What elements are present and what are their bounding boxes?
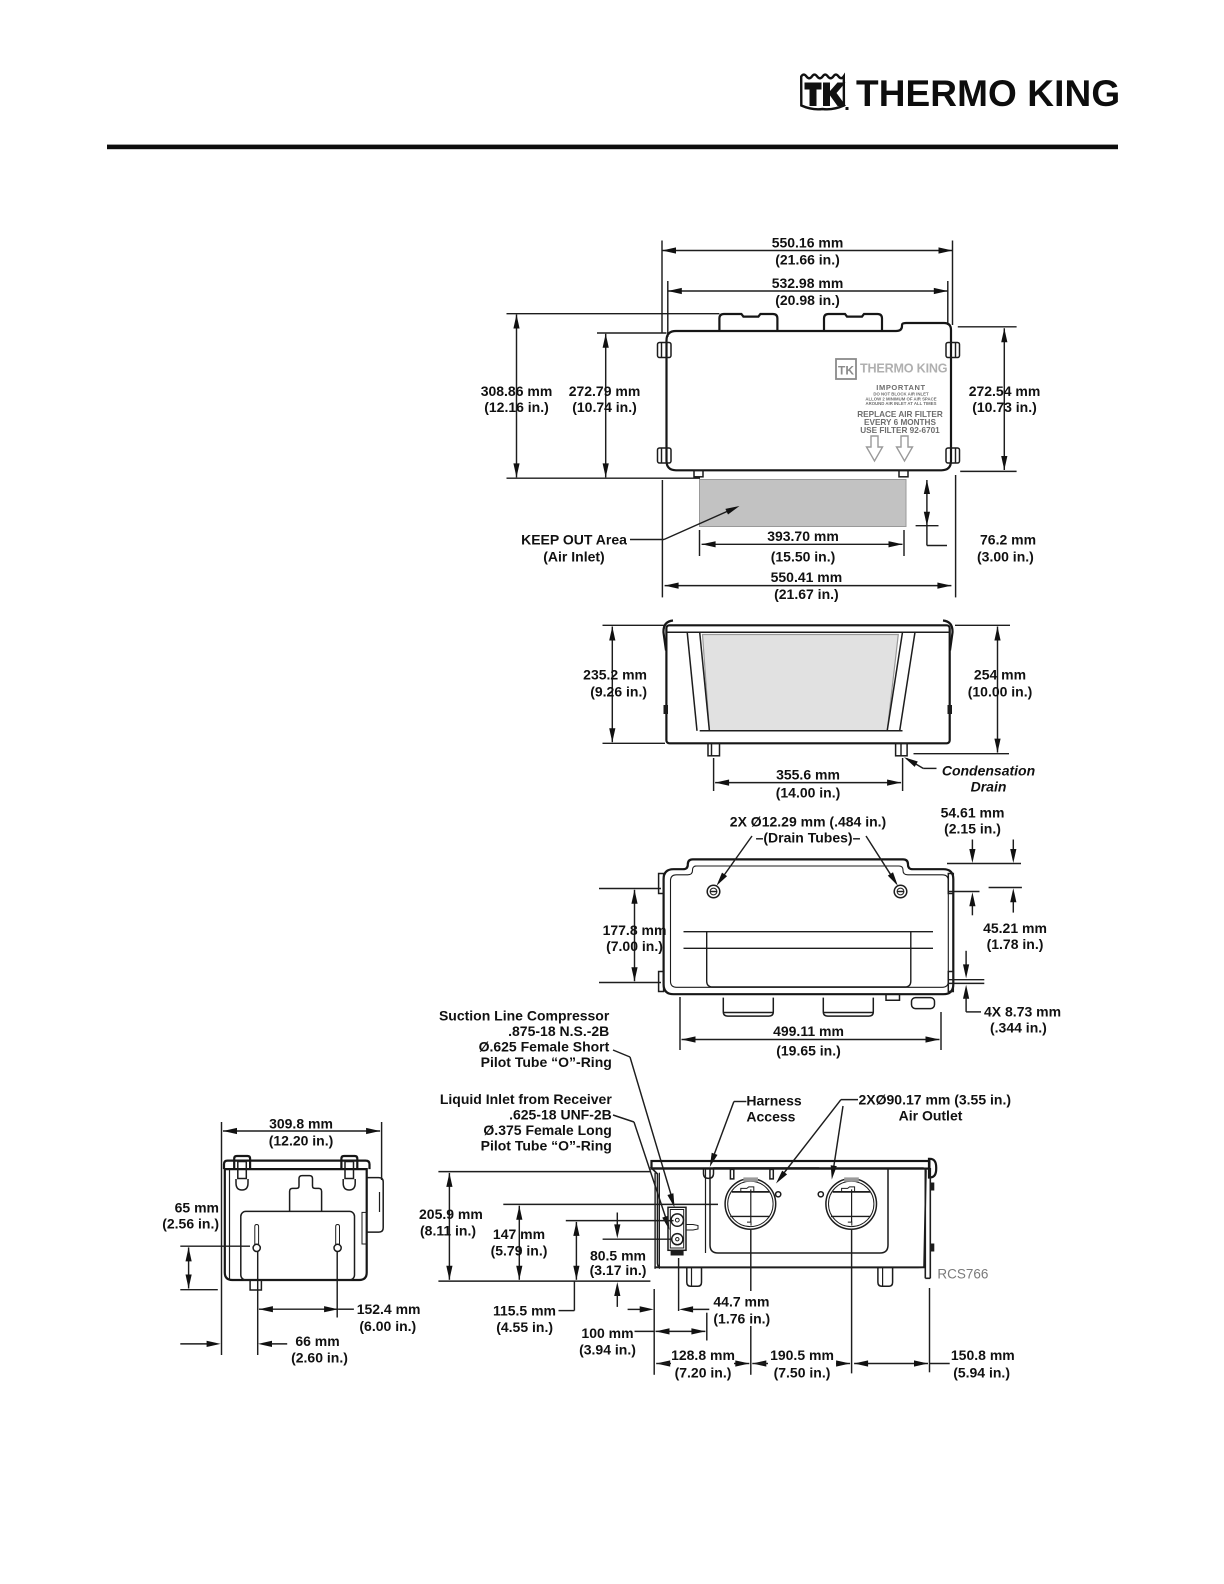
svg-text:532.98 mm: 532.98 mm <box>772 275 844 291</box>
svg-text:THERMO KING: THERMO KING <box>856 73 1120 114</box>
svg-text:(.344 in.): (.344 in.) <box>990 1020 1047 1036</box>
end view: foot left <box>687 1267 702 1286</box>
top view: housing outline <box>667 323 952 470</box>
side view: dim 309.8 mm line <box>223 1128 380 1134</box>
top view: filter arrow right <box>897 436 913 461</box>
svg-text:Ø.375 Female Long: Ø.375 Female Long <box>483 1122 611 1138</box>
bottom view: left corner clip top <box>659 874 664 894</box>
svg-text:(2.15 in.): (2.15 in.) <box>944 821 1001 837</box>
svg-text:.875-18 N.S.-2B: .875-18 N.S.-2B <box>508 1023 609 1039</box>
top view: mounting tab right <box>824 314 882 331</box>
end view: dim 100 mm line <box>635 1328 706 1334</box>
front view: condensation drain leader arrow <box>904 757 936 768</box>
svg-text:TK: TK <box>838 364 854 378</box>
svg-text:(5.94 in.): (5.94 in.) <box>953 1365 1010 1381</box>
end view: top rail <box>652 1159 937 1178</box>
svg-text:205.9 mm: 205.9 mm <box>419 1206 483 1222</box>
end view: suction leader line <box>613 1050 675 1208</box>
front view: drain foot right <box>896 743 908 756</box>
bottom view: drain tube hole left <box>707 885 720 898</box>
end view: dim 80.5 reference line <box>603 1238 672 1240</box>
side view: right connector protrusion <box>362 1178 383 1244</box>
front view: left side wall lines <box>687 632 709 731</box>
bottom view: access panel outline <box>707 932 911 987</box>
svg-text:2X Ø12.29 mm (.484 in.): 2X Ø12.29 mm (.484 in.) <box>730 814 886 830</box>
front view: housing outline <box>666 625 949 743</box>
top view: dim 308.86 extension line top <box>507 313 720 315</box>
top view: mounting tab left <box>719 314 777 331</box>
svg-text:Liquid Inlet from Receiver: Liquid Inlet from Receiver <box>440 1091 612 1107</box>
svg-text:THERMO KING: THERMO KING <box>860 362 948 376</box>
top view: IMPORTANT label text <box>865 383 936 406</box>
end view: screw hole right of left outlet <box>776 1192 781 1197</box>
svg-text:.625-18 UNF-2B: .625-18 UNF-2B <box>509 1107 612 1123</box>
svg-text:(10.74 in.): (10.74 in.) <box>572 399 637 415</box>
svg-text:(21.67 in.): (21.67 in.) <box>774 586 839 602</box>
svg-text:Harness: Harness <box>746 1093 801 1109</box>
end view: dim bottom reference line <box>438 1280 650 1282</box>
bottom view: condensation drain foot <box>912 998 935 1009</box>
top view: dim 532.98 extension lines <box>668 281 948 337</box>
top view: corner clip bottom-left <box>658 448 672 463</box>
svg-text:128.8 mm: 128.8 mm <box>671 1347 735 1363</box>
front view: dim 355.6 extension lines <box>714 758 903 791</box>
svg-text:76.2 mm: 76.2 mm <box>980 532 1036 548</box>
front view: left clip tick <box>664 705 669 714</box>
svg-text:AROUND AIR INLET AT ALL TIMES: AROUND AIR INLET AT ALL TIMES <box>866 401 937 406</box>
front view: top-right hook <box>943 621 953 651</box>
side view: dim 65 mm vertical line <box>186 1247 192 1288</box>
bottom view: inner outline <box>671 866 949 987</box>
svg-text:355.6 mm: 355.6 mm <box>776 767 840 783</box>
bottom view: dim 499.11 extension lines <box>680 997 941 1050</box>
top view: dim 272.79 mm vertical line <box>603 334 609 478</box>
end view: panel top inner line <box>713 1167 819 1169</box>
svg-text:190.5 mm: 190.5 mm <box>770 1347 834 1363</box>
end view: right wall lines <box>925 1168 930 1278</box>
front view: dim 254 extension lines <box>914 625 1011 753</box>
top view: dim 308.86 mm vertical line <box>513 315 519 478</box>
top view: dim 272.79 extension line top <box>597 332 667 334</box>
front view: dim 355.6 mm line <box>715 780 901 786</box>
end view: harness access grommet <box>704 1169 714 1178</box>
bottom view: dim 8.73 arrows and leader <box>963 951 981 1012</box>
front view: dim 254 mm vertical line <box>994 627 1000 753</box>
bottom view: dim 8.73 reference lines <box>949 980 984 984</box>
top view: dim 532.98 mm line <box>668 288 948 294</box>
top view: dim 272.54 extension lines right <box>958 327 1017 472</box>
end view: dim 115.5 reference line <box>566 1220 674 1222</box>
end view: inner recessed panel <box>710 1169 888 1253</box>
top view: dim 76.2 mm vertical line <box>916 480 947 546</box>
svg-text:115.5 mm: 115.5 mm <box>493 1303 556 1319</box>
bottom view: channel lines <box>684 932 934 949</box>
end view: air outlet leader right <box>831 1106 843 1180</box>
svg-text:44.7 mm: 44.7 mm <box>713 1294 769 1310</box>
svg-text:Pilot Tube “O”-Ring: Pilot Tube “O”-Ring <box>481 1138 612 1154</box>
top view: REPLACE AIR FILTER label text <box>857 410 943 435</box>
svg-text:(7.20 in.): (7.20 in.) <box>675 1365 732 1381</box>
svg-text:(4.55 in.): (4.55 in.) <box>496 1319 553 1335</box>
svg-text:65 mm: 65 mm <box>175 1200 219 1216</box>
svg-text:150.8 mm: 150.8 mm <box>951 1347 1015 1363</box>
svg-text:(5.79 in.): (5.79 in.) <box>491 1243 548 1259</box>
side view: bottom foot <box>250 1280 261 1290</box>
end view: dim 150.8 mm line <box>854 1360 950 1366</box>
svg-text:100 mm: 100 mm <box>581 1325 633 1341</box>
svg-text:45.21 mm: 45.21 mm <box>983 920 1047 936</box>
end view: dim 44.7 arrows <box>628 1306 710 1312</box>
side view: left inner wall line <box>229 1169 231 1279</box>
end view: dim 128.8 mm line <box>656 1360 749 1366</box>
end view: air outlet circle left <box>725 1177 776 1229</box>
bottom view: 45.21 reference extension line <box>989 887 1022 889</box>
svg-text:(7.50 in.): (7.50 in.) <box>774 1365 831 1381</box>
top view: KEEP OUT air inlet shaded area <box>700 480 907 527</box>
bottom view: dim 177.8 extension lines <box>599 889 661 983</box>
svg-text:(14.00 in.): (14.00 in.) <box>776 785 841 801</box>
top view: dim 550.41 mm line <box>665 583 952 589</box>
svg-text:(9.26 in.): (9.26 in.) <box>590 684 647 700</box>
top view: embossed TK emblem on lid <box>836 359 856 379</box>
svg-text:4X 8.73 mm: 4X 8.73 mm <box>984 1004 1061 1020</box>
front view: filter trapezoid shaded panel <box>703 635 899 731</box>
side view: clip tower left <box>234 1156 250 1190</box>
top view: dim 393.70 mm line <box>702 541 903 547</box>
svg-text:(2.56 in.): (2.56 in.) <box>162 1216 219 1232</box>
svg-text:(12.16 in.): (12.16 in.) <box>484 399 549 415</box>
svg-text:(21.66 in.): (21.66 in.) <box>775 252 840 268</box>
top view: bottom small tab right <box>899 470 908 477</box>
svg-text:(1.76 in.): (1.76 in.) <box>713 1311 770 1327</box>
bottom view: drain tube leader left <box>717 836 753 886</box>
bottom view: dim 499.11 mm line <box>682 1036 940 1042</box>
svg-text:(3.94 in.): (3.94 in.) <box>579 1342 636 1358</box>
front view: dim 235.2 extension lines <box>603 625 666 743</box>
svg-text:(19.65 in.): (19.65 in.) <box>776 1043 841 1059</box>
top view: dim 550.16 mm line <box>662 247 953 253</box>
svg-text:(8.11 in.): (8.11 in.) <box>420 1223 476 1239</box>
svg-text:(12.20 in.): (12.20 in.) <box>269 1133 334 1149</box>
side view: keyhole extension lines down <box>258 1252 338 1355</box>
svg-text:499.11 mm: 499.11 mm <box>773 1023 844 1039</box>
svg-text:(10.00 in.): (10.00 in.) <box>968 684 1033 700</box>
side view: keyhole slot right <box>334 1225 341 1252</box>
svg-text:(6.00 in.): (6.00 in.) <box>359 1318 416 1334</box>
front view: right side wall lines <box>887 632 915 731</box>
svg-text:177.8 mm: 177.8 mm <box>603 922 667 938</box>
side view: dim 152.4 mm line <box>259 1306 354 1312</box>
svg-text:152.4 mm: 152.4 mm <box>357 1301 421 1317</box>
end view: housing outline <box>652 1168 927 1268</box>
bottom view: air outlet collar right <box>823 998 873 1017</box>
svg-text:54.61 mm: 54.61 mm <box>941 805 1005 821</box>
end view: circle center extension lines down <box>751 1230 852 1375</box>
svg-text:393.70 mm: 393.70 mm <box>767 528 839 544</box>
svg-text:Suction Line Compressor: Suction Line Compressor <box>439 1008 610 1024</box>
svg-text:Ø.625 Female Short: Ø.625 Female Short <box>479 1039 610 1055</box>
svg-text:(7.00 in.): (7.00 in.) <box>606 938 663 954</box>
header horizontal rule <box>107 145 1118 150</box>
svg-text:272.54 mm: 272.54 mm <box>969 383 1041 399</box>
side view: center keyhole bump <box>290 1176 322 1212</box>
svg-text:–(Drain Tubes)–: –(Drain Tubes)– <box>756 830 861 846</box>
svg-text:RCS766: RCS766 <box>937 1267 988 1282</box>
bottom view: right corner clip top <box>948 874 953 894</box>
svg-text:(20.98 in.): (20.98 in.) <box>775 292 840 308</box>
svg-text:Drain: Drain <box>971 779 1007 795</box>
svg-text:(3.17 in.): (3.17 in.) <box>590 1262 647 1278</box>
svg-text:309.8 mm: 309.8 mm <box>269 1116 333 1132</box>
bottom view: drain tube leader right <box>866 836 898 886</box>
svg-text:(1.78 in.): (1.78 in.) <box>987 936 1044 952</box>
front view: dim 235.2 mm vertical line <box>609 627 615 743</box>
front view: bottom rail line <box>700 730 903 732</box>
bottom view: drain tube hole right <box>894 885 907 898</box>
end view: panel clip tick right <box>770 1169 773 1179</box>
side view: dim 66 mm arrows <box>180 1341 287 1347</box>
end view: box right extension line down <box>929 1288 931 1372</box>
bottom view: housing outline <box>664 859 954 994</box>
side view: dim 65 extension lines <box>180 1246 250 1290</box>
end view: foot right <box>878 1267 893 1286</box>
top view: filter arrow left <box>867 436 883 461</box>
end view: left wall lines <box>655 1173 659 1269</box>
svg-text:(10.73 in.): (10.73 in.) <box>972 399 1037 415</box>
top view: corner clip top-left <box>658 343 672 358</box>
side view: clip tower right <box>341 1156 357 1190</box>
top view: dim 550.41 extension lines <box>662 475 955 597</box>
end view: air outlet leader left <box>776 1100 858 1184</box>
svg-text:550.41 mm: 550.41 mm <box>771 569 843 585</box>
end view: extension line fitting center down <box>678 1258 680 1311</box>
end view: dim top reference line <box>438 1171 651 1173</box>
top view: corner clip top-right <box>946 343 960 358</box>
front view: drain foot left <box>708 743 720 756</box>
end view: dim 205.9 mm vertical line <box>446 1173 452 1280</box>
svg-text:USE FILTER 92-6701: USE FILTER 92-6701 <box>860 426 940 435</box>
svg-text:2XØ90.17 mm (3.55 in.): 2XØ90.17 mm (3.55 in.) <box>859 1092 1012 1108</box>
svg-text:Pilot Tube “O”-Ring: Pilot Tube “O”-Ring <box>481 1054 612 1070</box>
top view: dim 393.70 extension lines <box>700 530 905 556</box>
end view: fitting block <box>668 1207 698 1255</box>
bottom view: dim 54.61 arrows <box>969 840 975 916</box>
top view: corner clip bottom-right <box>946 448 960 463</box>
front view: top-left hook <box>663 621 673 651</box>
svg-text:66 mm: 66 mm <box>295 1333 339 1349</box>
svg-text:550.16 mm: 550.16 mm <box>772 235 844 251</box>
end view: panel clip tick left <box>730 1169 733 1179</box>
bottom view: bottom-right notch <box>886 994 900 1000</box>
bottom view: air outlet collar left <box>723 998 773 1017</box>
top view: dim 550.16 extension lines <box>662 241 953 334</box>
svg-text:(Air Inlet): (Air Inlet) <box>543 549 604 565</box>
top view: dim 272.54 mm vertical line <box>1001 328 1007 470</box>
end view: air outlet circle right <box>826 1177 877 1229</box>
bottom view: dim 54.61/45.21 top extension line <box>947 863 1021 865</box>
top view: bottom small tab left <box>694 470 703 477</box>
top view: bottom extension line left <box>507 477 701 479</box>
end view: extension line box left down <box>653 1289 655 1375</box>
bottom view: left corner clip bottom <box>659 972 664 992</box>
end view: dim 115.5 mm vertical line <box>559 1222 580 1311</box>
end view: harness leader line <box>710 1102 747 1168</box>
end view: liquid leader line <box>613 1115 670 1230</box>
side view: dim 309.8 extension lines <box>222 1122 382 1355</box>
bottom view: dim 45.21 arrows <box>1010 840 1016 913</box>
svg-text:Access: Access <box>746 1109 795 1125</box>
bottom view: right corner clip bottom <box>948 972 953 992</box>
end view: bottom edge <box>654 1266 925 1268</box>
side view: top cap rail <box>224 1161 370 1170</box>
svg-text:(15.50 in.): (15.50 in.) <box>771 549 836 565</box>
side view: keyhole slot left <box>253 1225 260 1252</box>
end view: dim 147 mm vertical line <box>516 1206 522 1280</box>
svg-text:272.79 mm: 272.79 mm <box>569 383 641 399</box>
front view: top rail line <box>666 631 949 633</box>
svg-text:Air Outlet: Air Outlet <box>899 1108 963 1124</box>
svg-text:KEEP OUT Area: KEEP OUT Area <box>521 532 627 548</box>
svg-text:Condensation: Condensation <box>942 763 1035 779</box>
Thermo King TK emblem logo <box>801 75 848 110</box>
bottom view: drain center extension line <box>949 891 980 893</box>
end view: dim 190.5 mm line <box>752 1360 850 1366</box>
top view: KEEP OUT leader arrow <box>630 506 740 540</box>
svg-text:235.2 mm: 235.2 mm <box>583 667 647 683</box>
end view: dim 80.5 arrows <box>614 1213 620 1307</box>
end view: screw hole left of right outlet <box>818 1192 823 1197</box>
front view: right clip tick <box>948 705 953 714</box>
end view: dim 147 reference line <box>503 1203 718 1205</box>
svg-text:147 mm: 147 mm <box>493 1226 545 1242</box>
svg-text:308.86 mm: 308.86 mm <box>481 383 553 399</box>
svg-text:(2.60 in.): (2.60 in.) <box>291 1350 348 1366</box>
svg-text:254 mm: 254 mm <box>974 667 1026 683</box>
side view: mounting panel <box>241 1211 355 1280</box>
end view: extension tick 100mm right <box>706 1313 708 1341</box>
svg-text:(3.00 in.): (3.00 in.) <box>977 549 1034 565</box>
side view: housing outline <box>225 1169 367 1280</box>
end view: right side clip marks <box>930 1183 934 1252</box>
bottom view: dim 177.8 mm vertical line <box>631 890 637 981</box>
